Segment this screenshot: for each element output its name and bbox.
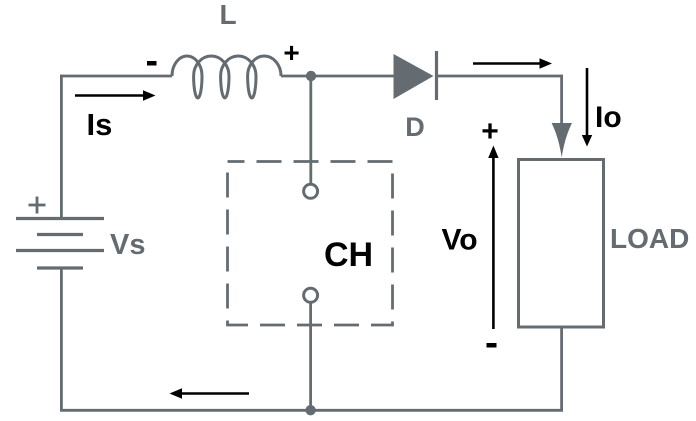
polarity - of L bbox=[147, 61, 157, 66]
polarity + of Vs bbox=[29, 197, 46, 214]
node: bottom rail / chopper junction dot bbox=[305, 405, 315, 415]
return current arrow (pointing left) bbox=[170, 388, 250, 398]
svg-text:LOAD: LOAD bbox=[610, 223, 689, 254]
wire: from diode cathode to top right corner bbox=[435, 75, 563, 78]
load resistor LOAD (rectangle) bbox=[519, 160, 604, 328]
svg-text:Is: Is bbox=[87, 107, 113, 142]
wire: left vertical from top corner down to battery + plate bbox=[60, 75, 63, 218]
node: inductor / diode / chopper junction dot bbox=[306, 71, 316, 81]
svg-text:D: D bbox=[405, 112, 425, 142]
wire: left vertical from battery - plate down to bottom rail bbox=[60, 268, 63, 411]
svg-text:Vs: Vs bbox=[110, 229, 145, 261]
wire: bottom return rail bbox=[60, 409, 563, 412]
inductor L bbox=[172, 56, 281, 98]
diode D bbox=[394, 51, 437, 100]
current arrow at diode output bbox=[473, 58, 552, 68]
wire: from inductor to diode anode bbox=[281, 75, 394, 78]
switch contact bottom (open circle) bbox=[304, 288, 318, 302]
switch contact top (open circle) bbox=[304, 184, 318, 198]
wire: right vertical down into load bbox=[560, 75, 563, 130]
svg-text:+: + bbox=[283, 37, 299, 68]
voltage source Vs (battery) bbox=[16, 219, 104, 269]
polarity - of Vo bbox=[487, 343, 497, 348]
wire: top left horizontal from source to inductor bbox=[60, 75, 172, 78]
svg-text:L: L bbox=[219, 0, 236, 30]
svg-text:Io: Io bbox=[595, 101, 622, 134]
arrowhead into load bbox=[552, 123, 572, 158]
wire: from junction node down to switch top contact bbox=[309, 76, 312, 185]
svg-text:+: + bbox=[481, 115, 499, 148]
current arrow Io bbox=[582, 68, 592, 147]
wire: from load bottom down to bottom rail bbox=[560, 327, 563, 411]
svg-text:Vo: Vo bbox=[441, 224, 477, 257]
svg-text:CH: CH bbox=[324, 236, 373, 274]
wire: from switch bottom contact down to bottom rail bbox=[309, 302, 312, 411]
voltage arrow Vo (pointing up) bbox=[488, 146, 498, 330]
chopper CH dashed box bbox=[228, 162, 393, 326]
current arrow Is bbox=[75, 90, 156, 100]
